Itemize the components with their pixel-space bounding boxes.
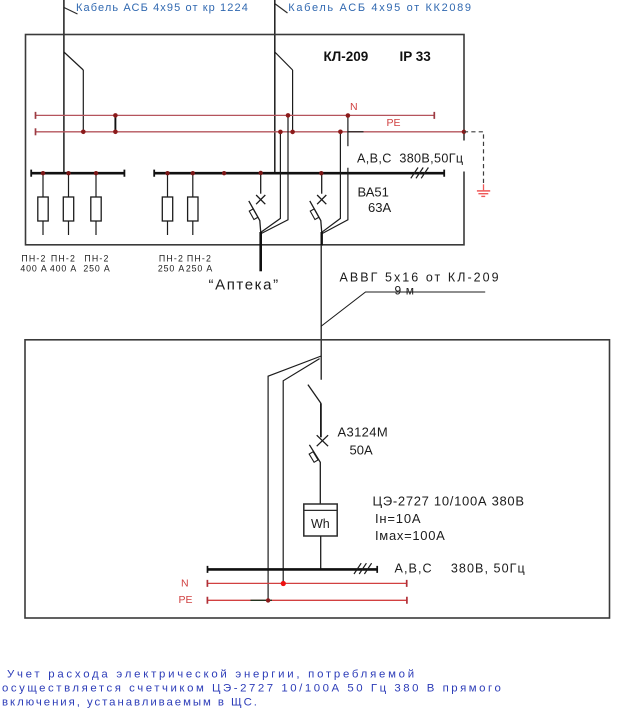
fuse ПН-2 250А #4 xyxy=(162,175,172,236)
label КЛ-209 xyxy=(324,49,369,64)
wire: ЩС N conductor (from N bus, with gap) xyxy=(323,116,364,234)
svg-text:250 А: 250 А xyxy=(186,264,213,274)
svg-text:PE: PE xyxy=(179,594,193,606)
svg-text:Wh: Wh xyxy=(311,517,330,531)
enclosure box КЛ-209 xyxy=(26,35,465,245)
svg-text:ПН-2: ПН-2 xyxy=(21,254,46,264)
svg-text:63А: 63А xyxy=(368,200,391,215)
svg-text:ВА51: ВА51 xyxy=(358,185,389,200)
svg-text:Учет расхода электрической эне: Учет расхода электрической энергии, потр… xyxy=(7,669,417,681)
svg-text:Iн=10А: Iн=10А xyxy=(375,511,421,526)
wire: cable 1 slant branch xyxy=(64,52,83,70)
fuse ПН-2 400А #1 xyxy=(38,175,48,236)
wire: Аптека N conductor xyxy=(262,115,289,233)
cable label 2 leader xyxy=(275,4,287,13)
svg-text:N: N xyxy=(350,101,358,113)
earth/ground symbol (red) xyxy=(477,184,490,196)
svg-text:N: N xyxy=(181,577,189,589)
fuse labels row xyxy=(20,254,213,274)
wire: cable 2 slant branch xyxy=(275,52,293,70)
junction dots on PE busbar xyxy=(81,130,466,135)
lower panel N busbar (red) xyxy=(207,580,406,587)
svg-text:250 А: 250 А xyxy=(83,264,110,274)
wire: split to PE conductor (lower panel) xyxy=(268,356,321,600)
circuit breaker Q3 А3124М xyxy=(308,385,328,504)
junction dots on right phase busbar xyxy=(165,171,323,176)
label IP 33 xyxy=(400,49,432,64)
three-phase slashes on right busbar xyxy=(411,168,429,179)
fuse ПН-2 250А #5 xyxy=(188,175,198,236)
cable callout АВВГ 5х16 от КЛ-209 xyxy=(321,271,501,327)
label PE xyxy=(387,117,401,129)
wire: cable 2 incoming vertical xyxy=(274,0,276,173)
wire: black segment on PE busbar xyxy=(251,599,273,601)
circuit breaker Q2 ВА51 (ЩС feeder) xyxy=(310,175,327,233)
wire: feeder down to lower panel xyxy=(320,246,322,380)
svg-text:ПН-2: ПН-2 xyxy=(187,254,212,264)
wire: meter output xyxy=(320,536,322,569)
svg-text:400 А: 400 А xyxy=(50,264,77,274)
kWh meter Wh xyxy=(304,504,337,536)
fuse ПН-2 250А #3 xyxy=(91,175,101,236)
svg-text:АВВГ 5х16 от КЛ-209: АВВГ 5х16 от КЛ-209 xyxy=(340,271,501,285)
lower panel phase busbar xyxy=(208,566,378,573)
svg-text:50А: 50А xyxy=(350,443,373,458)
wire: Аптека PE conductor xyxy=(261,132,281,232)
svg-text:Кабель АСБ 4х95 от кр 1224: Кабель АСБ 4х95 от кр 1224 xyxy=(76,2,249,14)
junction dot N (lower) xyxy=(281,581,286,586)
fuse ПН-2 400А #2 xyxy=(63,175,73,236)
wire: cable 1 PE conductor drop xyxy=(82,70,84,132)
label 63А xyxy=(368,200,391,215)
cable label 1 leader xyxy=(64,8,78,15)
junction dots on N busbar xyxy=(113,113,350,118)
label 50А xyxy=(350,443,373,458)
label А,В,С 380В,50Гц (upper) xyxy=(357,152,463,166)
svg-text:Iмах=100А: Iмах=100А xyxy=(375,528,446,543)
label N (lower) xyxy=(181,577,189,589)
cable label 1 text: Кабель АСБ 4х95 от кр 1224 xyxy=(76,2,249,14)
svg-text:IP 33: IP 33 xyxy=(400,49,432,64)
node PE busbar (red) xyxy=(36,128,464,135)
wire: cable 1 incoming vertical xyxy=(63,0,65,173)
label "Аптека" xyxy=(209,277,280,294)
wire: ЩС PE conductor xyxy=(322,132,341,232)
svg-text:осуществляется счетчиком ЦЭ-27: осуществляется счетчиком ЦЭ-2727 10/100А… xyxy=(2,683,503,695)
junction dots on left phase busbar xyxy=(41,171,98,175)
label ЦЭ-2727 10/100А 380В xyxy=(373,494,525,509)
svg-text:включения, устанавливаемым в Щ: включения, устанавливаемым в ЩС. xyxy=(2,697,259,709)
wire: cable 2 PE conductor drop xyxy=(292,70,294,132)
label N xyxy=(350,101,358,113)
left phase busbar xyxy=(31,170,124,177)
svg-text:ПН-2: ПН-2 xyxy=(159,254,184,264)
lower panel PE busbar (red) xyxy=(207,597,407,604)
note text (blue) xyxy=(2,669,503,709)
svg-text:250 А: 250 А xyxy=(158,264,185,274)
svg-text:9 м: 9 м xyxy=(395,284,415,298)
svg-text:PE: PE xyxy=(387,117,401,129)
border gap (text background) on right edge xyxy=(462,141,471,172)
svg-text:ПН-2: ПН-2 xyxy=(84,254,109,264)
label Iмах=100А xyxy=(375,528,446,543)
cable label 2 text: Кабель АСБ 4х95 от КК2089 xyxy=(288,2,472,14)
three-phase slashes on lower busbar xyxy=(354,563,372,574)
dashed PE-to-earth link xyxy=(464,132,484,185)
enclosure box ЩС (lower panel) xyxy=(25,340,610,618)
svg-text:400 А: 400 А xyxy=(20,264,47,274)
svg-text:ЦЭ-2727 10/100А 380В: ЦЭ-2727 10/100А 380В xyxy=(373,494,525,509)
junction dot PE (lower) xyxy=(266,598,270,602)
node N busbar (red) xyxy=(36,112,435,119)
label PE (lower) xyxy=(179,594,193,606)
right phase busbar xyxy=(154,170,444,177)
label А3124М xyxy=(338,425,389,440)
svg-text:А,В,С 380В, 50Гц: А,В,С 380В, 50Гц xyxy=(395,562,526,576)
svg-text:Кабель АСБ 4х95 от КК2089: Кабель АСБ 4х95 от КК2089 xyxy=(288,2,472,14)
wire: N-PE jumper xyxy=(114,115,116,131)
label Iн=10А xyxy=(375,511,421,526)
label ВА51 xyxy=(358,185,389,200)
wire: Аптека feeder outgoing (thick) xyxy=(259,232,262,271)
label А,В,С 380В, 50Гц (lower) xyxy=(395,562,526,576)
svg-text:“Аптека”: “Аптека” xyxy=(209,277,280,294)
wire: ЩС feeder outgoing thick stub xyxy=(321,232,323,246)
svg-text:КЛ-209: КЛ-209 xyxy=(324,49,369,64)
circuit breaker Q1 (Аптека feeder) xyxy=(249,175,265,233)
wire: split to N conductor (lower panel) xyxy=(283,359,319,584)
svg-text:А,В,С 380В,50Гц: А,В,С 380В,50Гц xyxy=(357,152,463,166)
svg-text:ПН-2: ПН-2 xyxy=(51,254,76,264)
svg-text:А3124М: А3124М xyxy=(338,425,389,440)
